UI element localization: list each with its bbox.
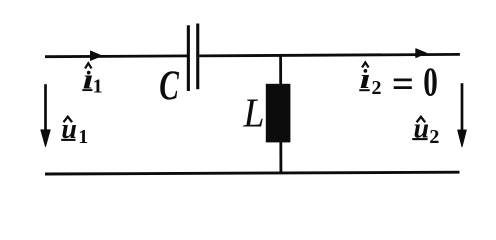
svg-text:=: = <box>392 62 414 105</box>
label i1: hat accent <box>85 63 91 68</box>
label i1: underline <box>82 89 92 91</box>
current arrow for i2 on top wire <box>416 49 426 58</box>
capacitor C right plate <box>196 24 199 90</box>
label i2: underline <box>359 89 369 91</box>
label u2: hat accent <box>417 117 426 123</box>
svg-text:L: L <box>243 90 265 136</box>
svg-text:1: 1 <box>78 126 88 148</box>
label u2: underline <box>412 138 427 140</box>
wire: top left segment <box>45 55 187 59</box>
wire: vertical branch to inductor <box>279 55 282 173</box>
wire: top right segment <box>199 54 460 55</box>
label u1: hat accent <box>64 117 73 123</box>
svg-text:1: 1 <box>93 76 103 98</box>
label u1: underline <box>61 139 75 141</box>
svg-text:C: C <box>159 62 179 108</box>
svg-text:2: 2 <box>372 77 382 99</box>
svg-text:0: 0 <box>423 58 438 104</box>
capacitor C left plate <box>187 25 190 91</box>
voltage arrow u2 (down) <box>461 83 464 132</box>
wire: bottom <box>45 172 460 174</box>
inductor L (filled rectangle) <box>266 84 291 143</box>
current arrow for i1 on top wire <box>91 51 102 60</box>
label i2: hat accent <box>362 62 369 67</box>
voltage arrow u1 (down) <box>44 84 47 132</box>
svg-text:2: 2 <box>429 126 439 148</box>
